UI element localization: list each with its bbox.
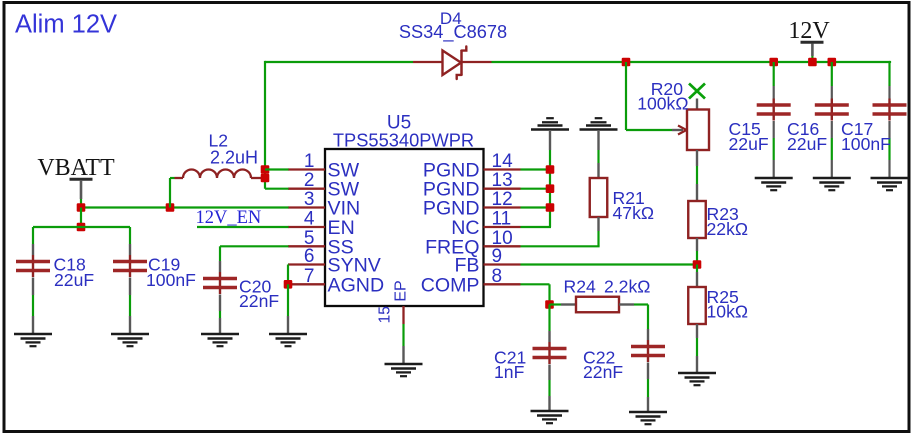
label R21 value (613, 203, 655, 223)
svg-text:SS34_C8678: SS34_C8678 (399, 22, 507, 43)
wire C16 top lead (831, 62, 833, 99)
wire R24 to C22 (619, 305, 648, 341)
capacitor C16 (815, 99, 849, 121)
pin 11 stub (484, 226, 521, 228)
svg-text:47kΩ: 47kΩ (613, 203, 655, 223)
wire C15 bottom lead (773, 121, 775, 178)
label C20 value (239, 291, 279, 311)
wire R21 top (597, 130, 599, 178)
label C20 (239, 277, 271, 297)
label L2 (209, 131, 229, 151)
label R23 value (707, 219, 749, 239)
pin 15 EP stub (402, 306, 404, 324)
wire C20 bottom (219, 295, 221, 335)
svg-text:3: 3 (304, 189, 315, 210)
wire R25 bottom (696, 324, 698, 373)
wire VBATT down (80, 208, 82, 228)
junction FB divider (693, 260, 702, 269)
pin 3 stub (288, 206, 325, 208)
svg-text:6: 6 (304, 246, 315, 267)
wire C19 bottom (129, 278, 131, 335)
svg-text:SYNV: SYNV (328, 255, 381, 277)
wire pin11 corner (521, 226, 552, 228)
svg-text:12V: 12V (788, 18, 830, 44)
pin 4 name EN (328, 217, 355, 239)
power port VBATT stub (80, 181, 83, 208)
svg-text:22uF: 22uF (787, 134, 827, 154)
ground C17 (871, 178, 909, 190)
junction C15 top (769, 58, 778, 67)
pin 13 name PGND (423, 179, 480, 201)
wire AGND to ground (287, 284, 289, 334)
label U5 (387, 113, 411, 134)
wire L2 to SW pins (265, 170, 289, 189)
diode D4 cathode lead (462, 61, 492, 63)
label TPS55340PWPR (333, 130, 474, 151)
wire C17 bottom lead (888, 121, 890, 178)
pin 14 stub (484, 168, 521, 170)
potentiometer R20 body (687, 110, 709, 151)
net label 12V_EN (196, 208, 262, 228)
svg-text:2.2uH: 2.2uH (210, 148, 258, 168)
pin 5 stub (288, 245, 325, 247)
pin 14 number (492, 151, 514, 172)
ground R25 (678, 373, 716, 385)
no-connect X on R20 top (689, 84, 705, 99)
label C17 value (841, 134, 891, 154)
power port VBATT label (37, 155, 115, 181)
label R25 (707, 287, 739, 307)
wire VIN bus (81, 206, 289, 208)
pin 5 name SS (328, 236, 354, 258)
pin 12 number (492, 189, 513, 210)
pin 9 stub (484, 263, 521, 265)
power port VBATT bar (70, 178, 93, 181)
wire C15 top lead (773, 62, 775, 99)
potentiometer R20 wiper arrow (672, 126, 687, 135)
wire pin12 (521, 206, 551, 208)
svg-text:22nF: 22nF (583, 362, 623, 382)
label C17 (841, 119, 873, 139)
pin 1 name SW (328, 160, 360, 182)
wire R20 to R23 (696, 150, 698, 201)
wire vertical from top bus down to L2 / SW pins (264, 61, 266, 189)
svg-text:100kΩ: 100kΩ (637, 93, 688, 113)
resistor R23 body (688, 201, 706, 238)
pin 9 number (492, 246, 503, 267)
junction pin14 (546, 165, 555, 174)
label C22 (583, 347, 615, 367)
label C16 (787, 119, 819, 139)
wire R20 branch vertical (625, 62, 627, 130)
wire PGND vertical (549, 130, 551, 227)
label R24 (564, 276, 596, 296)
wire EP to ground (402, 324, 404, 364)
svg-text:22uF: 22uF (54, 270, 94, 290)
label C19 (148, 254, 180, 274)
pin 6 number (304, 246, 315, 267)
svg-text:8: 8 (492, 266, 503, 287)
svg-text:FB: FB (454, 255, 479, 277)
pin 10 number (492, 228, 513, 249)
svg-text:EP: EP (393, 280, 410, 301)
label R25 value (707, 301, 749, 321)
pin 10 name FREQ (425, 236, 479, 258)
junction COMP node (545, 300, 554, 309)
svg-text:Alim 12V: Alim 12V (15, 11, 117, 39)
label C22 value (583, 362, 623, 382)
wire R20 wiper horizontal (626, 129, 672, 131)
wire SYNV down to AGND (287, 265, 290, 285)
wire COMP node to R24 (550, 303, 577, 305)
label C18 (54, 254, 86, 274)
pin 15 name EP (393, 280, 410, 301)
pin 12 stub (484, 206, 521, 208)
svg-text:22nF: 22nF (239, 291, 279, 311)
capacitor C21 (533, 342, 567, 364)
capacitor C18 (16, 255, 50, 277)
ground AGND (269, 334, 307, 346)
ground C15 (755, 178, 793, 190)
wire C22 bottom (647, 363, 649, 413)
junction 12V stub (808, 58, 817, 67)
junction L2 right (261, 174, 270, 183)
capacitor C22 (631, 340, 665, 362)
svg-text:12V_EN: 12V_EN (196, 208, 262, 228)
wire pin13 (521, 188, 551, 190)
wire C18 bottom (32, 278, 34, 335)
capacitor C17 (873, 99, 907, 121)
ground C18 (14, 334, 52, 346)
svg-text:15: 15 (377, 306, 394, 323)
svg-text:11: 11 (492, 209, 512, 230)
label R21 (613, 188, 645, 208)
junction C16 top (828, 58, 837, 67)
svg-text:1: 1 (304, 151, 315, 172)
pin 8 number (492, 266, 503, 287)
resistor R21 body (590, 178, 608, 217)
junction pin1 branch (261, 165, 270, 174)
label C19 value (146, 270, 196, 290)
label D4 (440, 9, 462, 28)
label C21 (494, 347, 526, 367)
wire C16 bottom lead (831, 121, 833, 178)
resistor R24 body (576, 297, 619, 313)
pin 11 name NC (451, 217, 479, 239)
svg-text:100nF: 100nF (146, 270, 196, 290)
svg-text:4: 4 (304, 209, 315, 230)
inductor L2 body (175, 170, 263, 179)
svg-text:VBATT: VBATT (37, 155, 115, 181)
pin 15 number (377, 306, 394, 323)
junction R20 branch (622, 58, 631, 67)
junction AGND (284, 280, 293, 289)
pin 7 stub (288, 283, 325, 285)
capacitor C20 (203, 272, 237, 294)
pin 5 number (304, 228, 315, 249)
svg-text:7: 7 (304, 266, 315, 287)
pin 7 number (304, 266, 315, 287)
power port 12V stub (811, 44, 814, 63)
svg-text:COMP: COMP (421, 274, 480, 296)
pin 1 number (304, 151, 315, 172)
wire COMP to junction (521, 284, 550, 304)
svg-text:12: 12 (492, 189, 513, 210)
wire R20 top stub (696, 99, 698, 111)
svg-text:2.2kΩ: 2.2kΩ (604, 276, 650, 296)
pin 13 stub (484, 188, 521, 190)
svg-text:14: 14 (492, 151, 514, 172)
pin 6 stub (288, 263, 325, 265)
pin 6 name SYNV (328, 255, 381, 277)
ground C19 (111, 334, 149, 346)
junction pin13 (546, 184, 555, 193)
label L2 value (210, 148, 258, 168)
ground C21 (531, 411, 569, 423)
power port 12V bar (801, 41, 824, 44)
wire tee to C18 (33, 227, 81, 255)
pin 4 stub (288, 226, 325, 228)
junction pin12 (546, 203, 555, 212)
svg-text:AGND: AGND (328, 274, 385, 296)
pin 2 stub (288, 188, 325, 190)
title Alim 12V (15, 11, 117, 39)
pin 4 number (304, 209, 315, 230)
pin 13 number (492, 170, 513, 191)
pin 3 name VIN (328, 198, 361, 220)
inverted ground PGND (531, 118, 569, 129)
pin 7 name AGND (328, 274, 385, 296)
wire EN net (197, 226, 289, 228)
ic U5 body (325, 149, 484, 306)
label R20 value (637, 93, 688, 113)
svg-text:22uF: 22uF (729, 134, 769, 154)
svg-text:R24: R24 (564, 276, 596, 296)
junction L2 branch (166, 203, 175, 212)
resistor R25 body (688, 287, 706, 324)
capacitor C15 (757, 99, 791, 121)
power port 12V label (788, 18, 830, 44)
wire SS to C20 (220, 246, 289, 272)
pin 9 name FB (454, 255, 479, 277)
ground C16 (813, 178, 851, 190)
label C15 (729, 119, 761, 139)
pin 10 stub (484, 245, 521, 247)
label C21 value (494, 362, 525, 382)
label C16 value (787, 134, 827, 154)
wire C17 top lead (888, 61, 891, 99)
pin 14 name PGND (423, 160, 480, 182)
label R20 (651, 79, 683, 99)
capacitor C19 (113, 255, 147, 277)
label R23 (707, 204, 739, 224)
label C18 value (54, 270, 94, 290)
label C15 value (729, 134, 769, 154)
svg-text:TPS55340PWPR: TPS55340PWPR (333, 130, 474, 151)
diode D4 body (443, 47, 467, 80)
pin 3 number (304, 189, 315, 210)
wire pin14 (521, 168, 551, 170)
wire C21 bottom (548, 365, 550, 412)
label SS34_C8678 (399, 22, 507, 43)
wire R21 bottom to FREQ (521, 217, 600, 246)
svg-text:100nF: 100nF (841, 134, 891, 154)
svg-text:22kΩ: 22kΩ (707, 219, 749, 239)
pin 8 stub (484, 283, 521, 285)
pin 2 name SW (328, 179, 360, 201)
pin 1 stub (288, 168, 325, 170)
pin 8 name COMP (421, 274, 480, 296)
junction VBATT (77, 203, 86, 212)
diode D4 anode lead (413, 61, 442, 63)
label R24 value (604, 276, 650, 296)
wire junction to R25 (696, 265, 698, 288)
inverted ground R21 (580, 118, 618, 129)
wire top bus from L2 branch to right corner (265, 61, 890, 63)
wire FB to divider (521, 263, 698, 265)
pin 11 number (492, 209, 512, 230)
ground EP (385, 364, 423, 376)
junction C18 C19 tee (77, 223, 86, 232)
svg-text:10kΩ: 10kΩ (707, 301, 749, 321)
ground C20 (201, 334, 239, 346)
pin 2 number (304, 170, 315, 191)
pin 12 name PGND (423, 198, 480, 220)
wire tee to C19 (81, 227, 130, 255)
wire COMP node to C21 (548, 305, 550, 343)
wire R23 bottom (696, 238, 698, 265)
wire L2 left (170, 178, 175, 208)
ground C22 (629, 412, 667, 424)
svg-text:1nF: 1nF (494, 362, 525, 382)
svg-text:9: 9 (492, 246, 503, 267)
